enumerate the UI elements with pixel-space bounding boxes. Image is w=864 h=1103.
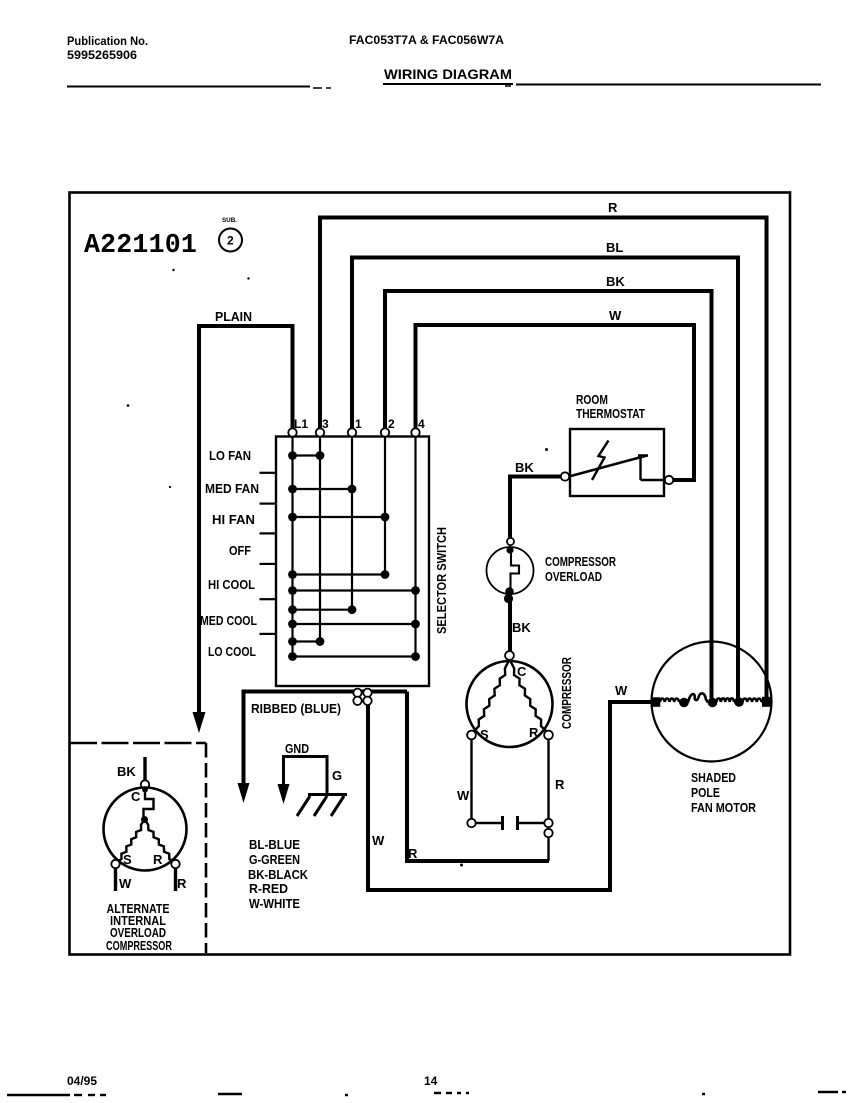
schematic id A221101 — [84, 231, 197, 261]
svg-text:Publication No.: Publication No. — [67, 34, 148, 48]
ribbed lead wire with arrow — [238, 692, 408, 804]
svg-text:04/95: 04/95 — [67, 1074, 97, 1088]
svg-text:HI COOL: HI COOL — [208, 577, 255, 592]
run capacitor C1 — [476, 816, 545, 830]
arrow on PLAIN lead — [193, 712, 206, 733]
svg-text:R: R — [555, 777, 565, 792]
terminal labels — [294, 417, 425, 431]
svg-text:FAN MOTOR: FAN MOTOR — [691, 800, 757, 815]
header rule small dashes — [313, 86, 511, 88]
alternate compressor — [104, 757, 188, 891]
svg-text:2: 2 — [388, 417, 395, 431]
label COMPRESSOR OVERLOAD — [545, 554, 616, 584]
svg-text:C: C — [517, 664, 527, 679]
run capacitor branch: R lead — [544, 739, 565, 861]
selector position tick marks — [260, 473, 276, 634]
svg-text:COMPRESSOR: COMPRESSOR — [106, 938, 172, 953]
PLAIN power lead rectangle — [199, 309, 293, 712]
svg-text:G-GREEN: G-GREEN — [249, 852, 300, 867]
compressor — [467, 651, 553, 747]
svg-text:PLAIN: PLAIN — [215, 309, 252, 324]
svg-text:BK-BLACK: BK-BLACK — [248, 867, 309, 882]
selector bottom connector circles — [353, 689, 371, 705]
svg-text:THERMOSTAT: THERMOSTAT — [576, 406, 645, 421]
svg-text:SUB.: SUB. — [222, 217, 237, 224]
svg-text:LO COOL: LO COOL — [208, 644, 256, 659]
svg-text:4: 4 — [418, 417, 425, 431]
footer broken rule — [7, 1092, 846, 1095]
svg-text:W: W — [615, 683, 628, 698]
svg-text:HI FAN: HI FAN — [212, 512, 255, 527]
svg-text:ROOM: ROOM — [576, 392, 608, 407]
svg-text:SELECTOR SWITCH: SELECTOR SWITCH — [434, 527, 449, 634]
wire W: selector bottom to fan motor — [368, 700, 653, 890]
wire BK: selector terminal 2 up, across, down to fan motor — [385, 291, 712, 701]
svg-text:BL-BLUE: BL-BLUE — [249, 837, 300, 852]
svg-text:5995265906: 5995265906 — [67, 48, 137, 62]
selector contact dots — [288, 451, 420, 661]
svg-text:SHADED: SHADED — [691, 770, 736, 785]
svg-text:BK: BK — [117, 764, 136, 779]
svg-text:W: W — [119, 876, 132, 891]
svg-text:R: R — [608, 200, 618, 215]
header rule left segment — [67, 86, 310, 88]
wire BL: selector terminal 1 up, across, down to fan motor — [352, 258, 738, 702]
svg-text:BK: BK — [515, 460, 534, 475]
alternate compressor dashed box — [70, 743, 206, 953]
svg-text:W: W — [457, 788, 470, 803]
wire R: selector terminal 3 up, across top, down to fan motor — [320, 218, 767, 702]
svg-text:G: G — [332, 768, 342, 783]
svg-text:W-WHITE: W-WHITE — [249, 896, 300, 911]
svg-text:R: R — [408, 846, 418, 861]
svg-text:COMPRESSOR: COMPRESSOR — [545, 554, 616, 569]
svg-text:2: 2 — [227, 234, 234, 248]
svg-text:BK: BK — [512, 620, 531, 635]
selector switch box — [276, 437, 429, 687]
svg-text:MED FAN: MED FAN — [205, 481, 259, 496]
svg-text:RIBBED (BLUE): RIBBED (BLUE) — [251, 701, 341, 716]
run capacitor branch: S lead — [457, 739, 476, 827]
header rule right segment — [516, 84, 821, 86]
selector internal terminal verticals — [293, 437, 416, 657]
svg-text:A221101: A221101 — [84, 231, 197, 261]
label SHADED POLE FAN MOTOR — [691, 770, 757, 815]
room thermostat — [561, 392, 673, 496]
header: model numbers — [349, 33, 504, 47]
wire R: selector to capacitor run — [407, 692, 549, 862]
shaded pole fan motor — [652, 642, 772, 762]
svg-text:R: R — [177, 876, 187, 891]
svg-text:S: S — [480, 727, 489, 742]
svg-text:R: R — [153, 852, 163, 867]
svg-text:FAC053T7A & FAC056W7A: FAC053T7A & FAC056W7A — [349, 33, 504, 47]
svg-text:COMPRESSOR: COMPRESSOR — [559, 657, 574, 729]
svg-text:BK: BK — [606, 274, 625, 289]
label ALTERNATE INTERNAL OVERLOAD COMPRESSOR — [106, 901, 172, 953]
svg-text:GND: GND — [285, 741, 309, 756]
svg-text:1: 1 — [355, 417, 362, 431]
chassis ground symbol — [297, 795, 347, 817]
wire W: selector terminal 4 up, across, down to thermostat right terminal — [416, 325, 695, 480]
svg-text:W: W — [372, 833, 385, 848]
scan specks — [127, 269, 548, 867]
svg-text:LO FAN: LO FAN — [209, 448, 251, 463]
svg-text:WIRING DIAGRAM: WIRING DIAGRAM — [384, 66, 512, 82]
svg-text:POLE: POLE — [691, 785, 720, 800]
svg-text:14: 14 — [424, 1074, 438, 1088]
compressor overload — [487, 538, 534, 603]
selector terminal circles L1 3 1 2 4 — [288, 428, 419, 436]
wire BK: overload to compressor C — [508, 600, 512, 651]
svg-text:OVERLOAD: OVERLOAD — [545, 569, 602, 584]
ground lead GND — [278, 741, 343, 804]
svg-text:R: R — [529, 725, 539, 740]
svg-text:R-RED: R-RED — [249, 881, 288, 896]
svg-text:OFF: OFF — [229, 543, 251, 558]
svg-text:S: S — [123, 852, 132, 867]
header: publication number — [67, 34, 148, 62]
node: wire from thermostat to compressor overload (BK) — [510, 477, 561, 539]
header: WIRING DIAGRAM title — [383, 66, 513, 84]
svg-text:MED COOL: MED COOL — [200, 613, 257, 628]
selector position labels — [200, 448, 259, 659]
svg-text:L1: L1 — [294, 417, 308, 431]
fan motor terminal dots — [651, 697, 772, 708]
svg-text:3: 3 — [322, 417, 329, 431]
selector contact rows — [293, 456, 416, 657]
svg-text:BL: BL — [606, 240, 623, 255]
revision circle 2 with SUB. — [219, 217, 242, 252]
svg-text:W: W — [609, 308, 622, 323]
svg-text:C: C — [131, 789, 141, 804]
outer diagram border — [70, 193, 791, 955]
wire colour legend — [248, 837, 309, 911]
